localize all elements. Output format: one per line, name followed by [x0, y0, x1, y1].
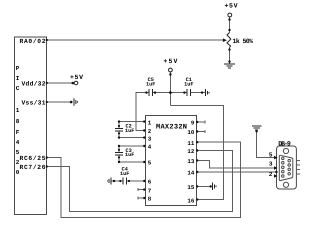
pin 10 stub end tick — [204, 130, 206, 133]
svg-text:13: 13 — [187, 158, 194, 165]
svg-text:12: 12 — [187, 148, 194, 155]
potentiometer R1 bottom wire — [229, 48, 231, 64]
DB9 right stubs — [296, 160, 299, 162]
ground arrow at Vss — [74, 98, 78, 106]
pin 9 stub — [197, 121, 205, 123]
svg-text:F: F — [16, 129, 20, 136]
node rail junction dot — [169, 91, 172, 94]
wire RC6 net to MAX pin11 — [47, 142, 241, 217]
node rail C5 right dot — [154, 91, 156, 93]
capacitor C3 wiring pin4/pin5 — [119, 146, 146, 152]
svg-text:I: I — [16, 75, 20, 82]
svg-text:DB-9: DB-9 — [278, 141, 291, 148]
arrowhead DB9 pin3 — [274, 166, 278, 170]
svg-text:1: 1 — [148, 119, 152, 126]
DB9 mounting hole top — [283, 148, 288, 153]
ground sideways at pin15 — [212, 183, 216, 191]
wire RC7 net to MAX pin12 — [47, 151, 233, 212]
wire Vdd to +5V terminal — [47, 82, 74, 84]
svg-text:1uF: 1uF — [184, 81, 193, 87]
arrowhead DB9 pin2 — [274, 174, 278, 178]
svg-text:6: 6 — [148, 179, 152, 186]
pin 8 stub end tick — [137, 197, 139, 200]
node pin15 gnd dot — [210, 185, 212, 187]
label PIC18F4520 vertical — [16, 65, 20, 176]
node pin12 dot — [196, 149, 198, 151]
node pin5 dot — [143, 161, 145, 163]
svg-text:11: 11 — [187, 140, 194, 147]
node Vdd pin dot — [46, 82, 48, 84]
connector DB-9 outer body — [277, 146, 297, 189]
node Vss end dot — [70, 101, 73, 104]
node pin8 dot — [143, 197, 145, 199]
node pot lower dot — [228, 48, 230, 50]
pin 10 stub — [197, 131, 205, 133]
svg-text:1k 50%: 1k 50% — [233, 38, 254, 45]
arrowhead DB9 pin5 — [274, 156, 278, 160]
node pin13 dot — [196, 159, 198, 161]
svg-text:RA0/02: RA0/02 — [20, 38, 46, 45]
svg-text:3: 3 — [148, 135, 152, 142]
node C4 left dot — [113, 180, 115, 182]
svg-text:Vss/31: Vss/31 — [22, 100, 46, 107]
node pin7 dot — [143, 188, 145, 190]
node Vdd terminal dot — [72, 82, 75, 85]
node pin3 dot — [143, 136, 145, 138]
svg-text:8: 8 — [148, 196, 152, 203]
svg-text:16: 16 — [187, 197, 194, 204]
capacitor C2 wiring pin1/pin3 — [119, 122, 146, 129]
wire rail C1 to ground — [191, 92, 206, 94]
node C3 bottom corner dot — [118, 161, 120, 163]
svg-text:2: 2 — [269, 171, 273, 178]
node pot top dot — [228, 18, 230, 20]
pin 7 stub — [138, 189, 146, 191]
potentiometer R1 top wire — [229, 17, 231, 33]
svg-text:10: 10 — [187, 129, 194, 136]
capacitor C1 plates — [186, 89, 188, 96]
svg-text:8: 8 — [16, 118, 20, 125]
node C2 bottom corner dot — [118, 136, 120, 138]
driver IC MAX232N body — [146, 115, 197, 205]
svg-text:RC7/26: RC7/26 — [20, 164, 46, 171]
arrowhead pot wiper — [223, 38, 227, 42]
svg-text:5: 5 — [269, 151, 273, 158]
svg-text:C: C — [16, 85, 20, 92]
svg-text:+5V: +5V — [70, 74, 83, 81]
svg-text:P: P — [16, 65, 20, 72]
node pin16 dot — [196, 198, 198, 200]
node Vss pin dot — [46, 101, 48, 103]
wire pin16 stub — [197, 199, 224, 201]
wire top rail segment left (to C5) — [136, 93, 149, 131]
pin15 ground stub — [197, 185, 212, 187]
node pin10 dot — [196, 130, 198, 132]
capacitor C4 plates — [122, 178, 124, 185]
capacitor C3 plates — [115, 151, 123, 153]
ground sideways right of C1 — [206, 89, 210, 96]
svg-text:3: 3 — [269, 160, 273, 167]
node pin1 dot — [143, 120, 145, 122]
node DB9 gnd dot — [255, 130, 257, 132]
capacitor C4 wiring pin6 — [112, 180, 124, 182]
svg-text:4: 4 — [148, 144, 152, 151]
node pin11 dot — [196, 141, 198, 143]
node C3 top corner dot — [118, 145, 120, 147]
svg-text:RC6/25: RC6/25 — [20, 155, 46, 162]
svg-text:4: 4 — [16, 139, 20, 146]
node pot upper dot — [228, 29, 230, 31]
svg-text:+5V: +5V — [163, 58, 177, 65]
DB9 inner D shape — [279, 155, 293, 180]
pin 9 stub end tick — [204, 121, 206, 124]
svg-text:9: 9 — [191, 120, 195, 127]
+5V terminal circle at pot — [228, 13, 232, 17]
capacitor C2 plates — [115, 127, 123, 129]
node C3 plate top dot — [118, 149, 120, 151]
+5V terminal circle at Vdd — [74, 81, 78, 85]
wire VCC rail to pin16 — [170, 105, 223, 199]
svg-text:1uF: 1uF — [120, 171, 129, 177]
svg-text:1uF: 1uF — [125, 128, 134, 134]
node C2 plate top dot — [118, 125, 120, 127]
node RA0 pin dot — [46, 39, 48, 41]
node pin6 dot — [143, 180, 145, 182]
node RC7 pin dot — [46, 165, 48, 167]
DB9 mounting hole bottom — [283, 182, 288, 187]
potentiometer R1 zigzag — [227, 33, 231, 48]
svg-text:1: 1 — [16, 107, 20, 114]
pin 7 stub end tick — [137, 188, 139, 191]
+5V terminal circle top center — [169, 68, 173, 72]
svg-text:5: 5 — [148, 160, 152, 167]
svg-text:+5V: +5V — [225, 2, 238, 9]
wire RA0 to pot wiper — [47, 39, 224, 41]
node net D corner dot — [275, 171, 277, 173]
ground above DB9 pin5 — [252, 126, 262, 130]
node C2 top corner dot — [118, 120, 120, 122]
svg-text:14: 14 — [187, 170, 194, 177]
wire Vss to ground — [47, 101, 72, 103]
capacitor C5 plates — [148, 89, 150, 96]
svg-text:1uF: 1uF — [146, 81, 155, 87]
svg-text:7: 7 — [148, 187, 152, 194]
svg-text:15: 15 — [187, 184, 194, 191]
svg-text:MAX232N: MAX232N — [156, 123, 187, 131]
node C4 right plate dot — [128, 180, 130, 182]
svg-text:2: 2 — [148, 128, 152, 135]
node rail C1 right dot — [201, 91, 203, 93]
microcontroller PIC18F4520 body — [15, 37, 47, 215]
node pin9 dot — [196, 121, 198, 123]
svg-text:1uF: 1uF — [125, 152, 134, 158]
wire ground to DB9 pin5 — [257, 130, 277, 158]
ground sideways left of C4 — [107, 177, 111, 184]
node C2 plate bottom dot — [118, 132, 120, 134]
wire +5V vertical to rail — [169, 72, 171, 105]
node rail C1 left dot — [183, 91, 185, 93]
pin 8 stub — [138, 197, 146, 199]
wire pin14 to DB9 pin2 — [197, 172, 277, 176]
DB9 pin circles right column — [288, 159, 291, 175]
node pin4 dot — [143, 145, 145, 147]
node pin2 dot — [143, 129, 145, 131]
node C3 plate bottom dot — [118, 156, 120, 158]
node pin15 dot — [196, 185, 198, 187]
ground below potentiometer — [224, 64, 235, 68]
node rail C5 left dot — [145, 91, 147, 93]
node pot bottom dot — [228, 60, 230, 62]
DB9 pin circles left column — [282, 157, 285, 177]
node +5V circle base dot — [169, 73, 171, 75]
node RC6 pin dot — [46, 156, 48, 158]
wire pin13 to DB9 pin3 — [197, 160, 277, 168]
wire rail C5 to junction — [152, 92, 187, 94]
node C4 left plate dot — [119, 180, 121, 182]
svg-text:Vdd/32: Vdd/32 — [22, 81, 46, 88]
node pin14 dot — [196, 171, 198, 173]
